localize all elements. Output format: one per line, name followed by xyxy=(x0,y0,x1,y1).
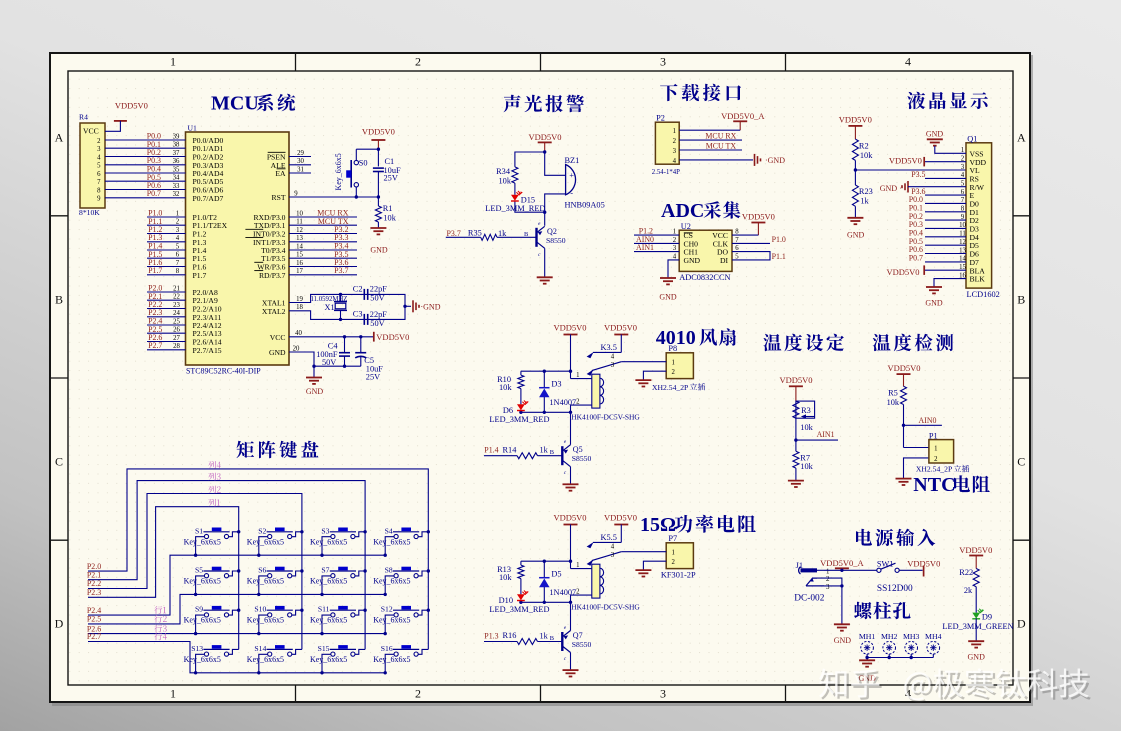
svg-text:VDD5V0: VDD5V0 xyxy=(839,115,872,125)
connector P7 xyxy=(666,534,693,569)
svg-text:VDD5V0_A: VDD5V0_A xyxy=(721,111,765,121)
svg-text:P2.7: P2.7 xyxy=(148,341,162,350)
svg-text:C: C xyxy=(55,455,63,469)
wires (ADC) xyxy=(634,235,770,278)
mounting hole MH3 xyxy=(903,632,920,654)
DC jack J1 xyxy=(794,561,830,604)
key switch S3 xyxy=(310,526,356,546)
junction dots S1 xyxy=(194,530,240,557)
svg-text:50V: 50V xyxy=(370,294,384,303)
wires (download port) xyxy=(679,130,753,160)
svg-text:XTAL2: XTAL2 xyxy=(262,307,286,316)
ground (ADC) xyxy=(659,278,677,302)
title 15 ohm power resistor xyxy=(640,514,756,536)
resistor R1 xyxy=(375,204,396,223)
wires (LCD divider) xyxy=(854,160,966,217)
junction dots S2 xyxy=(257,530,304,557)
sheet zone borders xyxy=(51,54,1030,702)
svg-text:36: 36 xyxy=(173,158,180,165)
svg-text:P1.4: P1.4 xyxy=(484,446,498,455)
title download port xyxy=(660,84,741,101)
power VDD5V0 (reset) xyxy=(362,127,395,150)
svg-text:2: 2 xyxy=(576,588,580,595)
svg-text:7: 7 xyxy=(735,237,739,244)
junction dots S7 xyxy=(320,569,367,596)
column labels LIE1-LIE4 xyxy=(208,461,221,506)
LCD connector Q1 xyxy=(959,134,1000,299)
net labels P2.0-P2.7 xyxy=(148,284,162,351)
svg-text:Q1: Q1 xyxy=(967,134,977,143)
svg-text:Key_6x6x5: Key_6x6x5 xyxy=(334,153,343,190)
buzzer BZ1 xyxy=(565,156,605,210)
svg-text:U2: U2 xyxy=(681,222,691,231)
wire S5 pins xyxy=(196,571,239,594)
svg-text:19: 19 xyxy=(296,296,303,303)
svg-text:S10: S10 xyxy=(254,605,266,614)
svg-text:GND: GND xyxy=(834,636,852,645)
svg-text:15: 15 xyxy=(296,252,303,259)
svg-text:GND: GND xyxy=(306,387,324,396)
svg-text:10k: 10k xyxy=(800,462,813,471)
relay K3.5 coil xyxy=(571,343,640,422)
net labels P2.4-P2.7 (keyboard) xyxy=(87,606,101,641)
svg-text:Key_6x6x5: Key_6x6x5 xyxy=(310,577,347,586)
svg-text:ADC: ADC xyxy=(661,200,704,222)
title matrix keyboard xyxy=(237,441,319,458)
wires (alarm) xyxy=(446,152,566,277)
key switch S5 xyxy=(184,566,230,586)
wires LCD pins xyxy=(908,178,966,262)
wire D9 to ground xyxy=(975,618,977,641)
diode D5 1N4007 xyxy=(539,570,576,598)
svg-text:P1.1: P1.1 xyxy=(772,252,786,261)
power VDD5V0 (R4) xyxy=(114,100,148,121)
wire R22 to D9 xyxy=(975,587,977,613)
svg-text:VDD5V0: VDD5V0 xyxy=(553,323,586,333)
svg-text:S14: S14 xyxy=(254,644,266,653)
junction dots S9 xyxy=(194,609,240,636)
svg-text:1: 1 xyxy=(576,562,579,569)
svg-text:S8: S8 xyxy=(385,566,393,575)
svg-text:K3.5: K3.5 xyxy=(601,343,617,352)
svg-text:XH2.54_2P: XH2.54_2P xyxy=(916,465,952,474)
U1 right pin names xyxy=(245,152,286,357)
wires row nets (P2.4-P2.7) xyxy=(88,555,385,673)
wire RST net xyxy=(289,149,378,228)
svg-text:3: 3 xyxy=(660,54,666,68)
label XH2.54_2P (P8) xyxy=(652,383,705,392)
title temperature detection xyxy=(873,334,953,352)
resistor R23 xyxy=(852,185,872,206)
svg-text:4: 4 xyxy=(611,354,615,361)
svg-text:5: 5 xyxy=(176,243,180,250)
ground (crystal) xyxy=(413,300,441,312)
power VDD5V0 (LCD divider) xyxy=(839,115,872,140)
ground (U1 GND pin) xyxy=(306,378,324,397)
wires column nets (P2.0-P2.3) xyxy=(88,469,428,650)
svg-text:VDD5V0: VDD5V0 xyxy=(604,513,637,523)
svg-text:1: 1 xyxy=(170,686,176,700)
transistor Q7 xyxy=(550,625,592,662)
junction dots S5 xyxy=(194,569,240,596)
svg-text:D: D xyxy=(55,617,64,631)
svg-text:S8550: S8550 xyxy=(546,236,566,245)
switch S0 xyxy=(334,153,367,190)
svg-text:2: 2 xyxy=(415,686,421,700)
svg-text:4: 4 xyxy=(611,544,615,551)
connector P2 xyxy=(652,114,680,176)
svg-text:HK4100F-DC5V-SHG: HK4100F-DC5V-SHG xyxy=(571,413,640,422)
svg-text:U1: U1 xyxy=(188,124,198,133)
svg-text:24: 24 xyxy=(173,310,180,317)
svg-text:C2: C2 xyxy=(353,285,363,294)
title NTC resistor xyxy=(913,474,990,496)
svg-text:P2.3: P2.3 xyxy=(87,588,101,597)
svg-text:35: 35 xyxy=(173,166,180,173)
svg-text:-: - xyxy=(570,188,573,197)
svg-text:GND: GND xyxy=(968,653,986,662)
ground (P8) xyxy=(635,380,651,386)
ground (LCD R/W) xyxy=(880,181,908,193)
svg-text:S8550: S8550 xyxy=(572,454,592,463)
diode D3 1N4007 xyxy=(539,380,576,408)
svg-text:1: 1 xyxy=(672,550,675,557)
svg-text:D3: D3 xyxy=(551,380,561,389)
wires (stud holes) xyxy=(865,654,933,660)
svg-text:Key_6x6x5: Key_6x6x5 xyxy=(310,655,347,664)
wire SW1 to VDD5V0 xyxy=(899,569,922,571)
svg-text:S15: S15 xyxy=(318,644,330,653)
svg-text:39: 39 xyxy=(173,133,180,140)
svg-text:C1: C1 xyxy=(385,157,395,166)
wire S10 pins xyxy=(259,610,302,633)
key switch S8 xyxy=(373,566,419,586)
U1 chip body STC89C52RC xyxy=(186,124,290,376)
svg-text:29: 29 xyxy=(297,150,304,157)
net labels P2.0-P2.3 (keyboard) xyxy=(87,562,101,597)
svg-text:S3: S3 xyxy=(321,526,329,535)
wire relay to P8 xyxy=(621,362,666,380)
junction dots S14 xyxy=(257,671,260,674)
svg-text:R34: R34 xyxy=(496,167,511,176)
chip U2 ADC0832CCN xyxy=(673,222,740,282)
svg-text:50V: 50V xyxy=(322,358,336,367)
wire VCC net xyxy=(289,337,374,366)
svg-text:AIN1: AIN1 xyxy=(636,243,654,252)
svg-text:HK4100F-DC5V-SHG: HK4100F-DC5V-SHG xyxy=(571,603,640,612)
power VDD5V0_A (power input) xyxy=(820,558,864,568)
svg-text:32: 32 xyxy=(173,191,180,198)
svg-text:16: 16 xyxy=(296,260,303,267)
watermark zhihu xyxy=(819,668,1091,702)
svg-text:S5: S5 xyxy=(195,566,203,575)
net labels P0.0-P0.7 xyxy=(147,132,161,199)
resistor R7 xyxy=(793,451,814,471)
svg-text:S11: S11 xyxy=(318,605,330,614)
svg-text:Key_6x6x5: Key_6x6x5 xyxy=(247,537,284,546)
wires (power resistor) xyxy=(484,525,621,671)
svg-text:22pF: 22pF xyxy=(370,310,387,319)
svg-text:SS12D00: SS12D00 xyxy=(877,584,913,594)
svg-text:10k: 10k xyxy=(383,214,396,223)
svg-text:13: 13 xyxy=(296,235,303,242)
wire VCC to R4 xyxy=(105,121,120,131)
svg-text:VDD5V0: VDD5V0 xyxy=(742,212,775,222)
resistor network R4 xyxy=(79,113,105,218)
ground (reset) xyxy=(370,228,388,255)
svg-text:1k: 1k xyxy=(540,446,549,455)
svg-text:RST: RST xyxy=(271,193,285,202)
capacitor C4 xyxy=(316,341,350,367)
wire relay to P7 xyxy=(621,552,666,570)
wires U1 port2 stubs xyxy=(147,292,186,350)
svg-text:R35: R35 xyxy=(468,229,482,238)
svg-text:VDD5V0: VDD5V0 xyxy=(889,155,922,165)
key switch S16 xyxy=(373,644,419,664)
svg-text:K5.5: K5.5 xyxy=(601,533,617,542)
svg-text:VDD5V0: VDD5V0 xyxy=(553,513,586,523)
wire S13 pins xyxy=(196,649,239,672)
svg-text:Key_6x6x5: Key_6x6x5 xyxy=(373,577,410,586)
svg-text:22: 22 xyxy=(173,294,180,301)
svg-text:R3: R3 xyxy=(801,406,811,415)
resistor R13 xyxy=(497,565,524,582)
svg-text:1: 1 xyxy=(826,567,830,575)
wire S2 pins xyxy=(259,532,302,555)
svg-text:R23: R23 xyxy=(859,187,873,196)
power VDD5V0 (temp set) xyxy=(779,375,812,401)
svg-text:AIN1: AIN1 xyxy=(817,430,835,439)
svg-text:S9: S9 xyxy=(195,605,203,614)
wires (temp set) xyxy=(794,418,838,451)
svg-text:LED_3MM_RED: LED_3MM_RED xyxy=(489,605,549,614)
svg-text:B: B xyxy=(55,293,63,307)
svg-text:1k: 1k xyxy=(860,197,869,206)
svg-text:3: 3 xyxy=(611,362,615,369)
svg-text:2: 2 xyxy=(415,54,421,68)
svg-text:P2.2: P2.2 xyxy=(87,579,101,588)
svg-text:VCC: VCC xyxy=(83,127,99,136)
svg-text:21: 21 xyxy=(173,285,180,292)
svg-text:R16: R16 xyxy=(503,631,517,640)
key switch S12 xyxy=(373,605,419,625)
LED D10 xyxy=(489,591,549,614)
power VDD5V0 (LCD VDD pin) xyxy=(889,155,924,166)
transistor Q2 xyxy=(524,221,566,258)
crystal X1 xyxy=(311,296,348,312)
wire S12 pins xyxy=(385,610,428,633)
ground (LCD divider) xyxy=(847,218,865,240)
wire S4 pins xyxy=(385,532,428,555)
svg-text:P1.3: P1.3 xyxy=(484,631,498,640)
svg-text:9: 9 xyxy=(294,190,298,197)
mounting hole MH4 xyxy=(925,632,942,654)
svg-text:Key_6x6x5: Key_6x6x5 xyxy=(184,537,221,546)
svg-text:15Ω: 15Ω xyxy=(640,514,676,536)
svg-text:HNB09A05: HNB09A05 xyxy=(565,201,605,210)
resistor R16 xyxy=(503,631,549,644)
svg-text:C: C xyxy=(1017,455,1025,469)
svg-text:Key_6x6x5: Key_6x6x5 xyxy=(184,616,221,625)
svg-text:S0: S0 xyxy=(359,159,368,168)
ground (LCD VSS) xyxy=(926,130,944,146)
relay K3.5 contacts xyxy=(587,352,622,376)
key switch S9 xyxy=(184,605,230,625)
junction dots S3 xyxy=(320,530,367,557)
junction dots (power resistor) xyxy=(519,560,572,605)
ground (LCD BLK) xyxy=(925,287,943,308)
wire S14 pins xyxy=(259,649,302,672)
svg-text:MCU: MCU xyxy=(211,93,259,115)
svg-text:2: 2 xyxy=(672,559,676,566)
svg-text:P0.7: P0.7 xyxy=(147,189,161,198)
svg-text:2: 2 xyxy=(673,138,677,145)
svg-text:30: 30 xyxy=(297,158,304,165)
title 4010 fan xyxy=(656,327,736,349)
capacitor C5 xyxy=(355,353,383,382)
ground (temp set) xyxy=(788,481,804,487)
svg-text:A: A xyxy=(1017,131,1026,145)
svg-text:LCD1602: LCD1602 xyxy=(967,290,1000,299)
svg-text:A: A xyxy=(55,131,64,145)
svg-text:P8: P8 xyxy=(668,344,677,353)
label XH2.54_2P (P1) xyxy=(916,465,969,474)
wire to ground (temp set) xyxy=(795,468,797,481)
svg-text:VDD5V0: VDD5V0 xyxy=(376,332,409,342)
svg-text:2: 2 xyxy=(934,456,938,463)
svg-text:2: 2 xyxy=(673,237,677,244)
svg-text:1k: 1k xyxy=(540,631,549,640)
key switch S14 xyxy=(247,644,293,664)
svg-text:3: 3 xyxy=(97,146,101,153)
svg-text:37: 37 xyxy=(173,150,180,157)
svg-text:·GND: ·GND xyxy=(421,302,441,311)
key switch S2 xyxy=(247,526,293,546)
svg-text:GND: GND xyxy=(880,184,898,193)
svg-text:D9: D9 xyxy=(982,612,992,621)
ground (P7) xyxy=(635,570,651,576)
svg-text:LED_3MM_GREEN: LED_3MM_GREEN xyxy=(942,622,1013,631)
junction dots S8 xyxy=(384,569,430,596)
potentiometer R3 xyxy=(793,401,815,432)
transistor Q5 xyxy=(550,439,592,476)
row labels HANG1-HANG4 xyxy=(154,606,167,640)
svg-text:1: 1 xyxy=(673,229,676,236)
wire VSS xyxy=(935,146,966,153)
svg-text:40: 40 xyxy=(295,330,302,337)
svg-text:EA: EA xyxy=(275,169,286,178)
svg-text:P2.5: P2.5 xyxy=(87,615,101,624)
svg-text:P1: P1 xyxy=(929,432,938,441)
svg-text:+: + xyxy=(569,171,574,180)
svg-text:BLK: BLK xyxy=(970,275,986,284)
svg-text:MH1: MH1 xyxy=(859,632,876,641)
wires U1 P3 port xyxy=(289,217,357,275)
ground (temp detect) xyxy=(896,479,912,485)
svg-text:VDD5V0: VDD5V0 xyxy=(115,100,148,110)
wire S7 pins xyxy=(322,571,365,594)
junction dots (alarm) xyxy=(543,150,546,214)
svg-text:D6: D6 xyxy=(503,406,513,415)
svg-text:Key_6x6x5: Key_6x6x5 xyxy=(247,616,284,625)
svg-text:4: 4 xyxy=(673,158,677,165)
key switch S1 xyxy=(184,526,230,546)
svg-text:9: 9 xyxy=(97,196,101,203)
svg-text:P1.7: P1.7 xyxy=(148,266,162,275)
junction dots S16 xyxy=(384,671,387,674)
svg-text:6: 6 xyxy=(176,252,180,259)
capacitor C2 xyxy=(353,285,387,303)
svg-text:VDD5V0: VDD5V0 xyxy=(362,127,395,137)
svg-text:DI: DI xyxy=(720,256,729,265)
svg-text:25: 25 xyxy=(173,318,180,325)
svg-text:NTC: NTC xyxy=(913,474,955,496)
power VDD5V0 (power resistor relay) xyxy=(604,513,637,525)
connector P1 xyxy=(929,432,954,463)
net labels P1.0-P1.7 xyxy=(148,209,162,276)
junction dots S13 xyxy=(194,671,197,674)
svg-text:5: 5 xyxy=(735,253,739,260)
key switch S10 xyxy=(247,605,293,625)
svg-text:R1: R1 xyxy=(383,204,393,213)
svg-text:Key_6x6x5: Key_6x6x5 xyxy=(247,577,284,586)
svg-text:1: 1 xyxy=(672,360,675,367)
svg-text:LED_3MM_RED: LED_3MM_RED xyxy=(485,204,545,213)
svg-text:P1.7: P1.7 xyxy=(193,271,207,280)
key switch S7 xyxy=(310,566,356,586)
U1 right pin numbers xyxy=(293,150,305,353)
svg-text:7: 7 xyxy=(176,260,180,267)
svg-text:3: 3 xyxy=(673,148,677,155)
svg-text:S6: S6 xyxy=(258,566,266,575)
wire GND pin 20 xyxy=(289,352,314,378)
wire BLK xyxy=(934,279,966,287)
svg-text:4: 4 xyxy=(673,253,677,260)
svg-text:VDD5V0: VDD5V0 xyxy=(887,363,920,373)
svg-text:S7: S7 xyxy=(321,566,329,575)
svg-text:P3.7: P3.7 xyxy=(334,266,348,275)
svg-text:ADC0832CCN: ADC0832CCN xyxy=(679,273,730,282)
svg-text:8: 8 xyxy=(176,268,180,275)
svg-text:10k: 10k xyxy=(887,398,900,407)
ground (power input) xyxy=(834,624,852,645)
svg-text:3: 3 xyxy=(826,583,830,591)
svg-text:2.54-1*4P: 2.54-1*4P xyxy=(652,169,680,176)
svg-text:10k: 10k xyxy=(499,383,512,392)
svg-text:1N4007: 1N4007 xyxy=(549,398,576,407)
power VDD5V0 (temp detect) xyxy=(887,363,920,386)
svg-text:P2.4: P2.4 xyxy=(87,606,101,615)
svg-text:B: B xyxy=(1017,293,1025,307)
wire VDD pin xyxy=(925,161,966,163)
svg-text:1N4007: 1N4007 xyxy=(549,588,576,597)
svg-text:D10: D10 xyxy=(499,596,513,605)
svg-text:GND: GND xyxy=(684,256,701,265)
svg-text:1: 1 xyxy=(170,54,176,68)
power VDD5V0 (fan left) xyxy=(553,323,586,335)
svg-text:P0.7/AD7: P0.7/AD7 xyxy=(193,194,224,203)
svg-text:7: 7 xyxy=(97,179,101,186)
svg-text:GND: GND xyxy=(925,299,943,308)
svg-text:VDD5V0: VDD5V0 xyxy=(604,323,637,333)
junction dots S4 xyxy=(384,530,430,557)
svg-text:GND: GND xyxy=(659,293,677,302)
svg-text:XH2.54_2P: XH2.54_2P xyxy=(652,383,688,392)
wires (fan) xyxy=(484,335,621,485)
svg-text:10k: 10k xyxy=(499,573,512,582)
svg-text:S12: S12 xyxy=(381,605,393,614)
svg-text:1: 1 xyxy=(934,446,937,453)
